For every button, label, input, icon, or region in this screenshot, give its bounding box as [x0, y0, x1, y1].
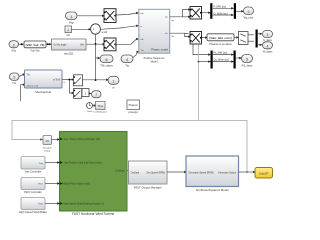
wire Ps_MW — [213, 52, 234, 56]
block Delay — [43, 136, 53, 153]
wire product D to tag2 — [202, 36, 208, 38]
svg-text:1: 1 — [113, 79, 115, 83]
svg-text:vqr: vqr — [141, 12, 144, 15]
wire vertical w feedback to sum — [95, 34, 97, 81]
inport Vdc — [9, 41, 19, 53]
wire product C to demux1 — [202, 12, 211, 14]
inport Wg — [66, 12, 78, 25]
svg-text:Wq_rotor: Wq_rotor — [244, 17, 254, 20]
wire branch to TSh oval — [96, 57, 101, 59]
block FAST Output Manager — [129, 161, 168, 189]
svg-text:2: 2 — [13, 43, 15, 47]
svg-text:Phasors: Phasors — [129, 104, 139, 107]
svg-text:Phasors to pu datos: Phasors to pu datos — [209, 43, 232, 46]
svg-text:FAST Nonlinear Wind Turbine: FAST Nonlinear Wind Turbine — [72, 212, 114, 216]
block abc2dq0 — [52, 39, 87, 55]
outport 7 — [92, 91, 102, 98]
svg-text:3: 3 — [267, 33, 269, 37]
svg-text:Pitch Controller: Pitch Controller — [24, 190, 42, 194]
svg-text:Tm: Tm — [141, 50, 144, 52]
svg-text:Ps_MW (pu): Ps_MW (pu) — [214, 52, 228, 55]
wire FOM to SPS — [167, 171, 187, 173]
converter block — [239, 32, 249, 45]
inport Tlg — [121, 55, 133, 67]
wire Q_MVar — [213, 12, 234, 16]
wire Wg to product A — [77, 15, 105, 17]
outport Vb_datos — [263, 42, 274, 54]
svg-text:Vb_datos: Vb_datos — [263, 51, 274, 54]
svg-text:Yaw: Yaw — [39, 163, 44, 165]
wire long vertical to demux4 — [198, 45, 212, 121]
svg-text:TSh_datos: TSh_datos — [100, 63, 113, 67]
svg-text:Time: Time — [97, 104, 103, 108]
svg-text:OutData: OutData — [131, 171, 140, 174]
inport Tm — [10, 73, 20, 85]
svg-text:idr: idr — [165, 32, 168, 35]
gain G1 — [82, 89, 89, 97]
block HSS Brake — [19, 198, 47, 215]
sum S1 — [91, 24, 101, 35]
svg-text:Vdc: Vdc — [11, 49, 16, 53]
svg-text:Pitch: Pitch — [38, 183, 44, 186]
svg-text:Yaw Controller: Yaw Controller — [25, 169, 42, 173]
svg-text:7: 7 — [95, 93, 97, 97]
outport Is_datos — [263, 31, 273, 43]
wire abc2dq to product B — [86, 43, 105, 45]
mux bar3 — [256, 30, 258, 48]
wire HSS to FAST — [45, 202, 60, 204]
svg-text:Gen Speed (RPM): Gen Speed (RPM) — [146, 172, 165, 174]
wire mux3 to Vb oval — [258, 44, 263, 46]
wire Yaw to FAST — [45, 161, 60, 163]
svg-text:Tm: Tm — [27, 73, 30, 76]
wire Tlg to PSM port4 — [133, 51, 139, 58]
wire switch1 to w oval — [83, 79, 110, 81]
outport PQ_datos — [242, 55, 254, 68]
svg-text:5: 5 — [246, 58, 248, 62]
svg-text:OutData: OutData — [115, 169, 125, 172]
wire P_MW — [213, 6, 234, 10]
block Time To Workspace — [93, 102, 108, 114]
goto tag Vabc — [24, 41, 46, 53]
svg-text:-: - — [96, 30, 97, 34]
wire sum to PSM port2 — [100, 25, 139, 30]
block PSM Positive Sequence Model — [139, 9, 170, 63]
mux bar5 — [234, 51, 236, 69]
wire product B to PSM port3 — [115, 38, 139, 45]
svg-text:Gen. Torque (Nm) and Power (W): Gen. Torque (Nm) and Power (W) — [64, 138, 101, 141]
wire mux3 to Is oval — [258, 33, 263, 35]
svg-text:6: 6 — [106, 58, 108, 62]
mux bar2 — [234, 3, 236, 19]
svg-text:idr: idr — [172, 35, 175, 38]
product U-A — [104, 9, 116, 23]
svg-text:SimPowerSystems Model: SimPowerSystems Model — [196, 188, 229, 192]
wire Vdc to tag1 — [19, 43, 25, 45]
block Yaw Controller — [21, 157, 45, 174]
clock — [87, 103, 94, 114]
outport Wg_rotor — [244, 7, 254, 20]
goto OutLMT — [255, 168, 273, 179]
goto tag Vabc Iabc — [207, 34, 234, 46]
block Mechanical — [25, 70, 63, 94]
wire product D bottom to demux4 — [193, 45, 211, 56]
outport TSh_datos — [100, 55, 113, 67]
wire Pitch to FAST — [45, 182, 60, 184]
wire PSM out2 to product D — [170, 33, 192, 38]
svg-text:Q_MVar (pu): Q_MVar (pu) — [214, 12, 228, 15]
svg-text:Mechanical: Mechanical — [35, 90, 51, 94]
switch SW2 — [74, 89, 82, 99]
wire tag2 to conv — [234, 36, 239, 38]
svg-text:Tlg: Tlg — [125, 63, 129, 67]
svg-text:phasor_sad: phasor_sad — [27, 84, 39, 87]
product U-C — [190, 7, 202, 20]
wire PSM out1 to product C — [170, 8, 192, 22]
wire Delay to FAST — [52, 138, 61, 140]
svg-text:w0: w0 — [67, 33, 71, 37]
svg-text:powergui: powergui — [129, 111, 139, 114]
svg-text:Positive Sequence: Positive Sequence — [144, 57, 165, 60]
svg-text:Generator Speed (RPM): Generator Speed (RPM) — [189, 171, 214, 174]
wire FAST to FOM — [127, 170, 129, 172]
svg-text:Transport: Transport — [43, 146, 53, 149]
svg-text:vdr: vdr — [141, 38, 144, 41]
svg-text:iqr: iqr — [165, 16, 168, 19]
svg-text:Clock: Clock — [87, 111, 93, 113]
wire clock to Time — [93, 104, 97, 106]
svg-text:OutLMT: OutLMT — [259, 172, 269, 176]
svg-text:HSS: HSS — [39, 204, 44, 206]
wire SPS to goto — [239, 171, 257, 173]
svg-text:FAST Output Manager: FAST Output Manager — [134, 185, 162, 189]
svg-text:Tm: Tm — [12, 81, 17, 85]
svg-text:Blade Pitch Angles (rad): Blade Pitch Angles (rad) — [64, 183, 90, 186]
wire phasor stub — [21, 84, 26, 102]
demux bar4 — [211, 51, 213, 69]
svg-text:P_MW (pu): P_MW (pu) — [214, 6, 227, 9]
svg-text:3: 3 — [13, 76, 15, 80]
annotation w-w0 — [102, 31, 108, 34]
svg-text:4: 4 — [126, 58, 128, 62]
svg-text:1: 1 — [67, 28, 69, 32]
switch SW1 — [74, 75, 83, 86]
demux bar1 — [210, 3, 212, 19]
svg-text:Vd Vq angle: Vd Vq angle — [54, 43, 68, 46]
svg-text:4: 4 — [267, 44, 269, 48]
svg-text:PQ_datos: PQ_datos — [242, 64, 253, 67]
wire branch down to switch2 — [70, 80, 75, 95]
wire mux2 to oval — [236, 10, 244, 12]
wire mux5 to PQ oval — [236, 57, 242, 59]
svg-text:High Speed Shaft Brake: High Speed Shaft Brake — [19, 210, 47, 214]
svg-text:Yaw Position (rad) and Rate (r: Yaw Position (rad) and Rate (rad/s) — [64, 162, 102, 165]
svg-text:2: 2 — [248, 10, 250, 14]
wires conv to mux3 — [248, 35, 254, 41]
constant w0 — [65, 26, 72, 37]
svg-text:1/z: 1/z — [45, 139, 49, 143]
svg-text:iqr: iqr — [172, 19, 175, 22]
svg-text:Qs_MVar (pu): Qs_MVar (pu) — [214, 59, 230, 62]
wire Tm to Mechanical — [19, 73, 26, 76]
svg-text:[Vabc_Iabc_rotor]: [Vabc_Iabc_rotor] — [210, 36, 232, 40]
wire tag1 to abc2dq — [46, 43, 52, 45]
outport w — [108, 76, 119, 89]
svg-text:abc2Q0: abc2Q0 — [64, 51, 74, 55]
svg-text:Generator Output: Generator Output — [218, 171, 236, 174]
product U-D — [190, 32, 202, 45]
svg-text:w To B: w To B — [53, 80, 60, 82]
block Pitch Controller — [21, 178, 45, 195]
wire w0 to sum — [72, 28, 92, 30]
product U-B — [104, 38, 116, 51]
svg-text:Vdc Vfix: Vdc Vfix — [30, 50, 40, 53]
block SimPowerSystems — [186, 156, 239, 192]
svg-text:+: + — [93, 28, 95, 32]
wire Qs_MVar — [213, 59, 234, 63]
wire gain to oval7 — [89, 92, 92, 94]
block FAST Nonlinear Wind Turbine — [60, 132, 128, 217]
svg-text:High Speed Shaft Braking Fract: High Speed Shaft Braking Fraction (-) — [64, 203, 105, 206]
svg-text:w-w0: w-w0 — [102, 31, 108, 34]
block powergui — [127, 100, 140, 114]
svg-text:Wg: Wg — [69, 21, 74, 25]
svg-text:Phasor_model: Phasor_model — [151, 48, 168, 52]
wire Mechanical out — [62, 78, 75, 84]
svg-text:To Workspace: To Workspace — [93, 111, 108, 114]
wire product A to PSM port1 — [115, 12, 139, 15]
svg-text:[Vd2_Vq2_V0]: [Vd2_Vq2_V0] — [26, 43, 45, 47]
wire feedback loop — [12, 120, 247, 172]
svg-text:Delay: Delay — [44, 150, 50, 152]
svg-text:Model: Model — [151, 61, 158, 64]
